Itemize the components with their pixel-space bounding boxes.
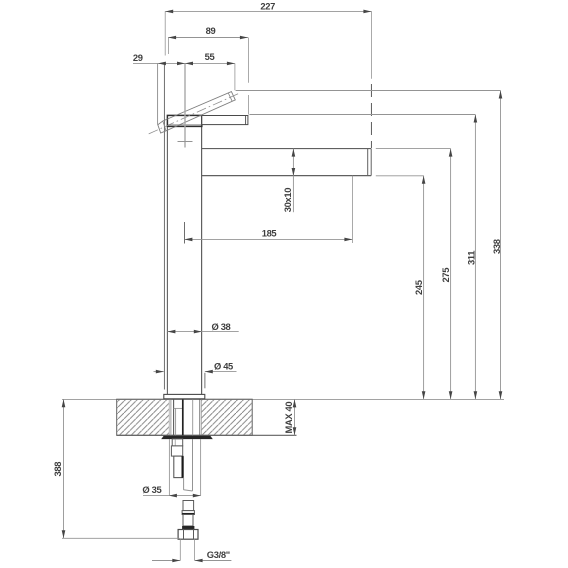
dimension 55 [185, 51, 235, 90]
dimension 30x10 [282, 149, 295, 213]
base flange [164, 394, 205, 398]
dimension diameter 35 [142, 439, 200, 497]
outer sleeve line left [163, 64, 165, 390]
svg-text:275: 275 [440, 268, 451, 283]
svg-text:Ø 45: Ø 45 [214, 360, 233, 371]
svg-text:388: 388 [52, 462, 63, 477]
svg-text:185: 185 [262, 227, 277, 238]
deck slab outline [117, 399, 253, 435]
deck bottom line [117, 434, 297, 436]
dimension 311 [249, 115, 477, 400]
dimension 227 [165, 1, 371, 79]
svg-text:227: 227 [260, 1, 275, 12]
svg-text:89: 89 [206, 25, 216, 36]
dimension diameter 38 [167, 321, 238, 333]
svg-text:30x10: 30x10 [282, 188, 293, 212]
svg-text:G3/8": G3/8" [207, 549, 230, 560]
dimension diameter 45 [154, 360, 237, 373]
svg-text:29: 29 [133, 52, 143, 63]
dimension 245 [376, 176, 426, 399]
pivot cross mark [178, 141, 193, 143]
dimension G3/8 [152, 539, 231, 562]
svg-text:Ø 38: Ø 38 [212, 321, 231, 332]
svg-text:Ø 35: Ø 35 [142, 484, 161, 495]
dimension 89 [168, 25, 248, 114]
outer sleeve line right [204, 373, 206, 389]
svg-text:MAX 40: MAX 40 [283, 402, 294, 434]
mounting nut stack [171, 439, 182, 478]
svg-text:55: 55 [205, 51, 215, 62]
outlet centerline dashed [370, 84, 372, 148]
supply hose [184, 439, 193, 491]
deck hatching left [117, 400, 169, 435]
pivot centerline [183, 63, 186, 243]
svg-text:245: 245 [413, 280, 424, 295]
handle lever rod [202, 116, 248, 125]
mounting washer [161, 436, 213, 439]
spout bar [202, 149, 371, 176]
svg-text:311: 311 [466, 251, 477, 265]
svg-text:338: 338 [491, 239, 502, 254]
supply pipe stub [182, 501, 194, 530]
dimension 275 [376, 149, 453, 400]
handle lever horizontal position [167, 115, 201, 126]
deck hatching right [201, 400, 251, 435]
threaded shank in hole [171, 399, 200, 435]
supply connection nut [178, 530, 198, 540]
dimension 388 [52, 399, 179, 538]
dimension 29 [133, 52, 185, 125]
deck hole walls [169, 399, 201, 435]
handle lever raised ghost position [149, 92, 240, 134]
dimension 185 [184, 176, 352, 243]
dimension 338 [236, 91, 503, 400]
dimension MAX 40 [283, 399, 296, 435]
deck top line [62, 398, 504, 400]
faucet column body [167, 126, 201, 394]
